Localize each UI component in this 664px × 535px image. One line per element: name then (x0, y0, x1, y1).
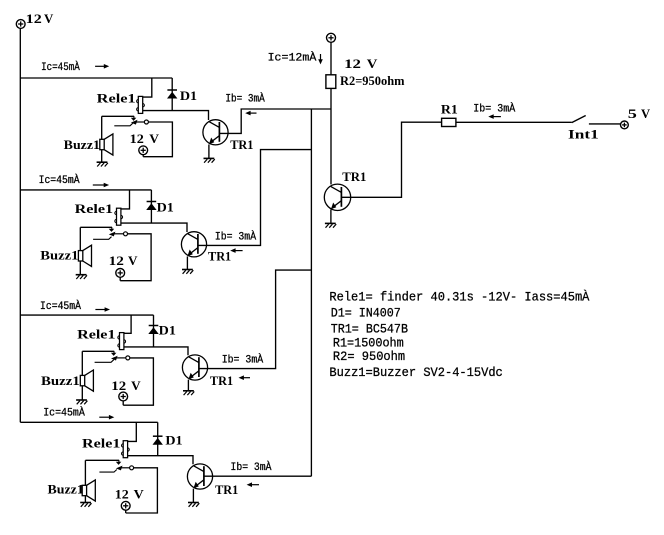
transistor TR1 stage 1 (203, 120, 228, 145)
ground transistor stage 4 (188, 503, 199, 507)
wire coil-anode to collector stage 2 (121, 223, 187, 232)
ground buzzer stage 3 (76, 400, 87, 404)
transistor TR1 stage 2 (181, 232, 206, 257)
diode D1 stage 4 (153, 436, 163, 445)
svg-text:R2=950ohm: R2=950ohm (340, 73, 405, 88)
wire buzzer bottom stage 2 (79, 261, 81, 275)
wire relay riser stage 3 (124, 315, 131, 333)
battery terminal 12V stage 4 (121, 501, 130, 510)
label 5 V (628, 106, 651, 121)
contact NC stub stage 2 (93, 237, 111, 240)
svg-text:Buzz1: Buzz1 (41, 373, 80, 388)
contact arrow down stage 1 (131, 116, 137, 121)
wire contact to loop stage 4 (126, 468, 158, 513)
wire contact common stage 1 (136, 121, 145, 123)
svg-text:12: 12 (130, 131, 144, 146)
svg-text:Ic=45mÀ: Ic=45mÀ (39, 173, 81, 187)
wire contact top stage 4 (85, 459, 119, 461)
svg-text:V: V (641, 106, 651, 121)
svg-text:D1: D1 (165, 433, 182, 448)
transistor TR1 main (324, 184, 350, 210)
svg-text:D1: D1 (180, 88, 197, 103)
arrow Ib stage 1 (245, 111, 256, 116)
diode D1 stage 2 (146, 202, 156, 211)
contact blade arrow stage 4 (116, 466, 123, 471)
svg-text:Ic=12mÀ: Ic=12mÀ (268, 50, 317, 64)
arrow Ic stage 4 (99, 415, 114, 420)
contact NC stub stage 3 (95, 360, 114, 363)
legend text block (329, 289, 589, 380)
svg-text:12: 12 (115, 487, 129, 502)
wire diode branch stage 1 (171, 78, 173, 111)
contact blade arrow stage 2 (109, 232, 116, 237)
wire buzzer top stage 2 (79, 227, 81, 250)
ground buzzer stage 2 (76, 275, 87, 279)
svg-text:Ib= 3mÀ: Ib= 3mÀ (225, 92, 265, 106)
diode D1 stage 3 (148, 326, 158, 335)
svg-text:12: 12 (344, 56, 361, 71)
wire switch to 5V (589, 123, 621, 125)
battery terminal 12V stage 2 (116, 269, 125, 278)
svg-text:TR1: TR1 (230, 137, 253, 152)
wire contact common stage 4 (121, 467, 130, 469)
svg-text:Buzz1: Buzz1 (40, 248, 78, 263)
wire coil-anode to collector stage 4 (128, 456, 193, 465)
wire relay riser stage 4 (128, 422, 137, 441)
resistor R1 (442, 118, 456, 126)
wire diode branch stage 4 (157, 422, 159, 455)
wire supply to R2 (330, 42, 332, 75)
wire contact common stage 3 (116, 357, 126, 359)
supply terminal 12V top-left (16, 20, 25, 29)
buzzer Buzz1 stage 3 (80, 370, 93, 391)
svg-text:V: V (44, 11, 54, 26)
wire coil-anode to collector stage 1 (143, 111, 209, 120)
svg-text:TR1: TR1 (208, 248, 231, 263)
svg-text:Rele1: Rele1 (75, 201, 113, 216)
buzzer Buzz1 stage 1 (100, 134, 113, 155)
wire coil-anode to collector stage 3 (124, 347, 188, 355)
wire buzzer bottom stage 1 (101, 150, 103, 163)
battery stub stage 4 (125, 510, 127, 513)
svg-text:12: 12 (26, 11, 42, 26)
ground buzzer stage 1 (97, 162, 108, 166)
ground TR1 main (325, 223, 336, 227)
wire contact top stage 1 (102, 115, 134, 117)
relay coil Rele1 stage 1 (137, 96, 145, 113)
label 12 V stage 2 (109, 253, 139, 268)
svg-text:Rele1: Rele1 (97, 91, 136, 106)
wire emitter stage 4 (192, 489, 194, 503)
wire emitter TR1 main (330, 210, 332, 224)
label 12 V top-left (26, 11, 54, 26)
contact pivot stage 3 (126, 356, 130, 360)
wire main 12V bus vertical left (19, 28, 21, 422)
svg-text:V: V (149, 131, 159, 146)
svg-text:V: V (128, 253, 138, 268)
supply terminal 12V top-right (327, 33, 336, 42)
wire emitter stage 2 (186, 257, 188, 270)
label 12 V stage 4 (115, 487, 145, 502)
relay coil Rele1 stage 4 (122, 441, 130, 458)
svg-text:Ib= 3mÀ: Ib= 3mÀ (222, 353, 264, 367)
contact arrow down stage 3 (111, 351, 117, 356)
svg-text:Int1: Int1 (568, 126, 599, 141)
wire buzzer bottom stage 3 (81, 386, 83, 400)
svg-text:Rele1= finder 40.31s -12V- Ia: Rele1= finder 40.31s -12V- Iass=45mÀ (329, 289, 589, 304)
svg-text:Buzz1: Buzz1 (48, 482, 84, 497)
contact arrow down stage 2 (109, 227, 115, 232)
svg-text:Buzz1: Buzz1 (64, 137, 100, 152)
diode D1 stage 1 (167, 90, 177, 99)
svg-text:Rele1: Rele1 (77, 326, 115, 341)
battery stub stage 1 (142, 155, 144, 157)
wire contact to loop stage 3 (123, 358, 153, 405)
svg-text:Buzz1=Buzzer SV2-4-15Vdc: Buzz1=Buzzer SV2-4-15Vdc (329, 365, 502, 380)
svg-text:Ic=45mÀ: Ic=45mÀ (41, 60, 80, 74)
transistor TR1 stage 3 (182, 355, 207, 380)
arrow Ic stage 2 (93, 183, 109, 188)
battery stub stage 2 (119, 277, 121, 280)
wire base stage 3 (199, 270, 312, 369)
wire buzzer top stage 1 (101, 116, 103, 139)
svg-text:D1= IN4007: D1= IN4007 (331, 306, 401, 321)
arrow Ic=12mA down (318, 54, 323, 64)
wire collector bus stage 2 (20, 189, 151, 191)
svg-text:R2= 950ohm: R2= 950ohm (333, 349, 405, 364)
svg-text:TR1: TR1 (342, 169, 366, 184)
wire base stage 2 (198, 150, 312, 246)
arrow Ib stage 3 (239, 375, 251, 380)
wire contact top stage 3 (82, 350, 114, 352)
ground transistor stage 3 (183, 391, 194, 395)
wire base stage 4 (204, 475, 312, 477)
wire contact common stage 2 (114, 233, 124, 235)
wire emitter stage 1 (208, 145, 210, 159)
label 12 V stage 3 (111, 378, 141, 393)
wire base trunk vertical (310, 109, 312, 476)
svg-text:D1: D1 (157, 199, 174, 214)
wire relay riser stage 1 (143, 78, 152, 97)
wire base TR1 main to R1 (341, 122, 441, 197)
wire buzzer top stage 4 (84, 460, 86, 485)
wire contact to loop stage 1 (143, 122, 172, 157)
ground transistor stage 1 (204, 158, 215, 162)
battery terminal 12V stage 3 (119, 392, 128, 401)
svg-text:12: 12 (109, 253, 124, 268)
svg-text:V: V (367, 56, 378, 71)
contact NC stub stage 4 (99, 470, 116, 473)
contact arrow down stage 4 (116, 460, 122, 465)
wire contact top stage 2 (80, 226, 112, 228)
svg-text:12: 12 (111, 378, 126, 393)
transistor TR1 stage 4 (187, 464, 212, 489)
wire buzzer bottom stage 4 (84, 496, 86, 503)
ground buzzer stage 4 (80, 503, 91, 507)
svg-text:R1: R1 (441, 102, 458, 117)
contact pivot stage 1 (144, 120, 148, 124)
svg-text:D1: D1 (159, 322, 176, 337)
wire diode branch stage 3 (153, 315, 155, 347)
switch Int1 lever (572, 116, 586, 123)
svg-text:Ib= 3mÀ: Ib= 3mÀ (231, 460, 273, 474)
battery terminal 12V stage 1 (139, 146, 148, 155)
svg-text:Ic=45mÀ: Ic=45mÀ (43, 405, 85, 419)
wire R2 to collector TR1 main (330, 88, 332, 184)
wire collector bus stage 4 (20, 421, 157, 423)
wire collector bus stage 1 (20, 77, 172, 79)
svg-text:Ib= 3mÀ: Ib= 3mÀ (473, 101, 515, 115)
buzzer Buzz1 stage 4 (82, 480, 95, 501)
wire emitter stage 3 (187, 380, 189, 391)
arrow Ic stage 1 (95, 64, 109, 69)
wire relay riser stage 2 (121, 190, 130, 209)
arrow Ic stage 3 (95, 307, 110, 312)
arrow Ib stage 4 (247, 482, 259, 487)
contact pivot stage 2 (124, 232, 128, 236)
buzzer Buzz1 stage 2 (78, 245, 91, 266)
relay coil Rele1 stage 3 (118, 333, 126, 350)
svg-text:V: V (131, 378, 141, 393)
arrow Ib stage 2 (230, 248, 242, 253)
wire R1 to switch (456, 121, 572, 123)
label 12 V top-right (344, 56, 378, 71)
svg-text:TR1= BC547B: TR1= BC547B (331, 321, 408, 336)
resistor R2 (326, 75, 336, 89)
svg-text:Ic=45mÀ: Ic=45mÀ (40, 299, 82, 313)
wire collector bus stage 3 (20, 314, 153, 316)
wire base stage 1 (219, 109, 331, 133)
wire buzzer top stage 3 (81, 351, 83, 375)
label 12 V stage 1 (130, 131, 160, 146)
contact NC stub stage 1 (114, 123, 133, 126)
contact blade arrow stage 3 (111, 356, 118, 361)
supply terminal 5V (621, 121, 629, 129)
svg-text:TR1: TR1 (215, 482, 238, 497)
ground transistor stage 2 (182, 270, 193, 274)
relay coil Rele1 stage 2 (115, 208, 123, 225)
battery stub stage 3 (122, 401, 124, 405)
wire diode branch stage 2 (150, 190, 152, 223)
svg-text:TR1: TR1 (210, 373, 233, 388)
arrow Ib main (488, 114, 501, 119)
contact pivot stage 4 (130, 466, 134, 470)
svg-text:5: 5 (628, 106, 638, 121)
svg-text:Rele1: Rele1 (82, 436, 120, 451)
svg-text:Ib= 3mÀ: Ib= 3mÀ (215, 229, 257, 243)
svg-text:V: V (134, 487, 145, 502)
contact blade arrow stage 1 (131, 120, 138, 125)
wire contact to loop stage 2 (120, 234, 151, 281)
